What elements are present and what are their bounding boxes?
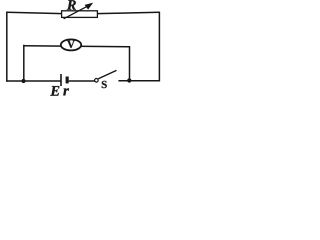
label r xyxy=(63,88,69,95)
wire voltmeter branch right vertical xyxy=(129,46,131,81)
battery E short plate xyxy=(66,77,69,84)
label E xyxy=(50,86,59,95)
wire bottom-left segment xyxy=(6,80,61,82)
switch S blade xyxy=(98,70,116,78)
wire voltmeter branch left vertical xyxy=(23,45,25,81)
label R xyxy=(67,0,76,9)
node junction right xyxy=(127,78,131,82)
voltmeter U1 body xyxy=(61,39,81,50)
battery E long plate xyxy=(60,74,62,86)
wire top-right segment xyxy=(97,12,159,13)
wire left side xyxy=(6,12,8,82)
wire switch-to-right segment xyxy=(118,80,160,82)
wire top-left segment xyxy=(7,12,62,13)
label S xyxy=(102,81,107,88)
wire right side xyxy=(158,12,160,82)
node junction left xyxy=(21,79,25,83)
resistor R1 wiper arrow xyxy=(64,3,94,19)
wire battery-to-switch segment xyxy=(69,80,95,82)
wire voltmeter branch horizontal xyxy=(24,46,130,47)
switch S contact circle xyxy=(95,79,99,83)
resistor R1 (rheostat) body xyxy=(62,11,98,18)
voltmeter label V xyxy=(67,41,75,48)
